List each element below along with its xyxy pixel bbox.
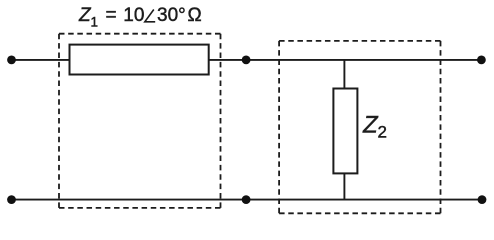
svg-text:1: 1	[91, 15, 99, 30]
svg-text:2: 2	[378, 123, 387, 142]
svg-text:Z: Z	[362, 112, 379, 139]
svg-text:=: =	[106, 5, 117, 26]
svg-text:Ω: Ω	[188, 5, 202, 26]
svg-text:10: 10	[123, 5, 144, 26]
svg-text:30°: 30°	[157, 5, 186, 26]
